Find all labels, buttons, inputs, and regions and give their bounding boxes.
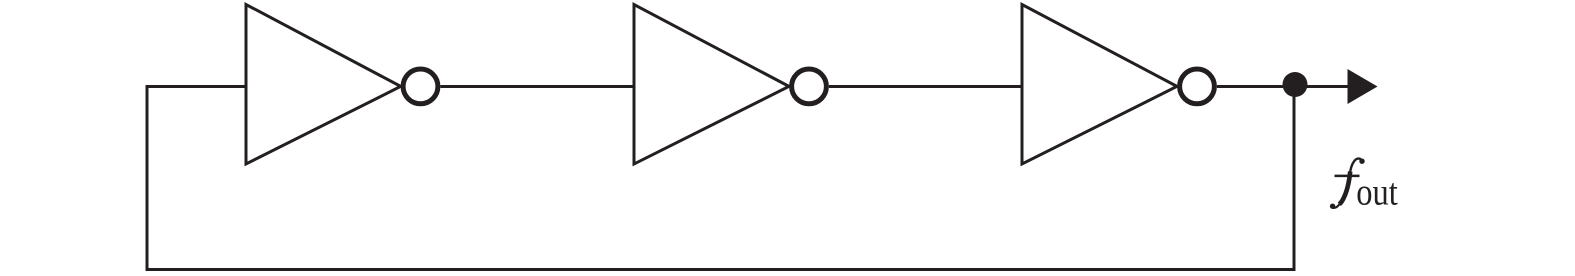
- f bottom hook: [1332, 203, 1341, 208]
- junction dot: output node: [1283, 72, 1308, 97]
- inverter U3 triangle: [1022, 5, 1177, 165]
- wire: U1 output to U2 input (node B): [440, 85, 634, 88]
- wire: feedback loop (left vertical, bottom horizontal, right vertical): [147, 85, 1294, 270]
- label f_out: [1330, 159, 1365, 209]
- inverter U1 triangle: [246, 5, 401, 165]
- arrowhead: output terminal: [1348, 69, 1378, 104]
- svg-text:out: out: [1356, 172, 1398, 214]
- f main stem: [1339, 172, 1350, 205]
- wire: U2 output to U3 input (node C): [829, 85, 1022, 88]
- inverter U3 output bubble: [1180, 69, 1215, 104]
- f crossbar: [1335, 175, 1360, 178]
- inverter U2 output bubble: [792, 69, 827, 104]
- inverter U2 triangle: [634, 5, 789, 165]
- wire: input to inverter U1 (node A): [147, 85, 246, 88]
- wire: U3 output to output node: [1217, 85, 1348, 88]
- inverter U1 output bubble: [403, 69, 438, 104]
- f bottom ball terminal: [1330, 204, 1335, 209]
- f top hook: [1350, 159, 1362, 174]
- f top ball terminal: [1359, 159, 1364, 164]
